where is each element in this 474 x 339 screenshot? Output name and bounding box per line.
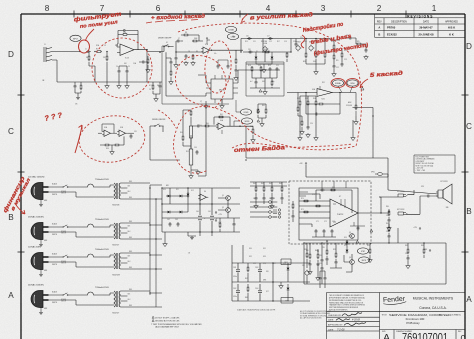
svg-text:D20: D20 [344,237,347,239]
mid band ground [234,76,239,81]
svg-text:C91: C91 [319,263,322,265]
svg-text:0.25W INPUT: 0.25W INPUT [416,161,425,163]
input labels [42,33,130,83]
power amp dashed enclosure [289,181,371,244]
u3 left resistor R32 [297,106,299,112]
power resistor R51 [189,135,193,170]
plug wires 3 [51,257,112,267]
red circle around C1 [79,40,90,53]
svg-text:R32: R32 [297,98,300,100]
rect extra diodes [162,204,188,213]
svg-text:B: B [378,32,380,36]
svg-text:BR1: BR1 [166,185,169,187]
svg-text:TITLE:: TITLE: [382,315,388,317]
svg-text:SWITCH: SWITCH [61,263,66,265]
title block frame [327,293,466,339]
svg-text:WRITTEN PERMISSION FROM FENDER: WRITTEN PERMISSION FROM FENDER [329,307,359,309]
stage1 out wire [147,51,164,53]
svg-text:RED: RED [129,197,132,199]
mute transistor Q3 [348,234,354,239]
SPKR connector pin [371,172,388,178]
jack wires [388,190,438,214]
mute resistor 1 [306,252,308,258]
svg-text:DO NOT STUFF = CSA CHK: DO NOT STUFF = CSA CHK [155,316,180,319]
resistor R40 [204,125,210,127]
svg-text:C90: C90 [319,255,322,257]
secondary bus wires [150,185,162,307]
TONE pot [263,41,269,52]
svg-text:C81: C81 [386,231,389,233]
svg-text:T400mA L250V: T400mA L250V [95,248,109,251]
ground rowC2 [189,174,194,179]
svg-text:BLU: BLU [128,261,131,263]
mute chain c3 [407,256,410,261]
svg-text:D30: D30 [249,248,252,250]
svg-text:RED: RED [129,267,132,269]
svg-text:R8: R8 [185,32,187,34]
node u4 out [239,126,240,127]
mute ground r6 [368,258,373,263]
u4 feedback [214,117,230,126]
svg-text:C99: C99 [322,247,325,249]
drive mid node 1 [240,51,241,52]
svg-text:3: 3 [321,4,326,13]
svg-text:DESCRIPTION: DESCRIPTION [391,22,407,24]
tone resistor Ra [251,66,253,72]
svg-text:C70: C70 [312,194,315,196]
mute chain r3 [407,248,409,254]
svg-text:SWITCH: SWITCH [61,301,66,303]
svg-text:APPROVED: APPROVED [445,21,458,24]
TREBLE pot [295,42,301,52]
volume out wire [356,108,373,159]
svg-text:C11: C11 [253,41,256,43]
output node [380,212,381,213]
svg-text:D32: D32 [249,256,252,258]
red dashed stub switch [158,110,176,128]
tone section box [246,62,284,96]
pa extra pins [299,192,365,231]
chain resistor R49 [190,110,192,116]
feedback resistor R4 [122,34,128,36]
input node 1 [79,51,80,52]
drive channel enclosure [162,46,229,104]
op-amp U5A [102,130,112,136]
op-amp U1B [201,47,211,53]
svg-text:R E V I S I O N S: R E V I S I O N S [407,15,433,19]
transformer T1 [112,183,133,199]
svg-text:GRN: GRN [44,270,47,272]
red arrow to input stage [86,29,95,41]
speaker coupling cap [426,195,431,198]
supply mid extra [219,218,235,232]
svg-text:R61: R61 [261,183,264,185]
tone box parts [250,78,280,88]
full power test note box [414,155,455,173]
secondary wires 1 [133,183,156,199]
tb nodes [305,38,306,39]
stack grounds [298,136,303,141]
misc nodes [159,52,160,53]
stack wires [300,96,316,136]
svg-text:4-30-08: 4-30-08 [352,318,361,321]
lower bus parts wires [75,82,81,96]
svg-text:22K: 22K [103,57,106,59]
pa feedback cap [320,189,325,192]
svg-text:2: 2 [377,4,382,13]
clip diode wires [256,52,272,68]
u3 feedback resistor R31 [318,103,324,105]
STBY oval stamp [357,248,368,254]
svg-text:C65: C65 [269,198,272,200]
svg-text:TL072: TL072 [125,58,129,60]
svg-text:R92: R92 [367,245,370,247]
svg-text:GRN: GRN [44,308,47,310]
chain resistor R50 [182,135,184,141]
mute wires r6 [369,243,371,258]
input node 3 [106,51,107,52]
svg-text:POWER: POWER [61,299,66,301]
tone wires [246,64,284,90]
drive switch S2 [154,124,160,127]
supply cap C62 [169,222,172,227]
MORE DRIVE oval stamp [241,118,252,124]
svg-text:C8: C8 [188,51,190,53]
drive mid run [243,51,291,53]
resistor R42 [252,128,254,134]
svg-text:7-2-08: 7-2-08 [337,328,345,332]
svg-text:INPUT: INPUT [73,38,78,40]
wire down from u4 [245,126,247,158]
footswitch wires [234,100,240,126]
supply rail wires [162,188,240,236]
u5 resistor 2 [114,144,120,146]
low cap bank 2 [258,263,262,301]
svg-text:C3: C3 [104,45,106,47]
warning triangle u3 [361,87,364,90]
svg-text:FULL POWER TEST:: FULL POWER TEST: [416,156,430,158]
opamp labels 2 [96,44,136,65]
drive series cap [248,51,253,54]
mute wires c5 [330,243,342,268]
plug wires 1 [51,187,112,197]
svg-text:0: 0 [461,334,466,339]
pa input wires [299,194,381,227]
chain wires rowC [183,110,198,170]
stage2 top wires [176,35,203,52]
svg-text:29-MAY-07: 29-MAY-07 [419,26,433,30]
mute wires [304,240,446,284]
pa top pins [322,181,346,188]
red left margin note [2,174,33,214]
tone ground [263,90,268,95]
power switch S2 [62,225,68,228]
u3 out node [339,92,340,93]
red flourish 2 [301,35,305,48]
checked date row [328,318,361,321]
ground rowC [196,170,201,175]
stage1 extra caps [139,56,150,73]
power switch label 2 [61,231,66,235]
svg-text:C18: C18 [248,49,251,51]
right top parts [344,37,368,60]
svg-text:RED: RED [129,289,132,291]
svg-text:C97: C97 [273,263,276,265]
mute cap 2 [321,266,324,271]
svg-text:MUTE: MUTE [362,260,367,262]
node rect [187,195,188,196]
ground stage2 a [184,61,189,66]
svg-text:POWER: POWER [61,261,66,263]
u5 ground [110,150,115,155]
svg-text:1K5: 1K5 [336,60,339,62]
supply transistor Q1 [224,196,230,201]
low right chain 3 [326,240,329,265]
svg-text:D10: D10 [163,189,166,191]
speaker wires [436,192,438,196]
tone resistor Rb [260,66,262,72]
svg-text:U7: U7 [339,196,341,198]
svg-text:DRIVE ON/OFF: DRIVE ON/OFF [158,38,172,40]
drive switch S1 [163,44,169,47]
svg-text:T65070T: T65070T [112,245,120,247]
svg-text:J1: J1 [44,44,46,46]
svg-text:REV: REV [377,22,382,24]
svg-text:T160mA L250V: T160mA L250V [95,218,109,221]
svg-text:C7: C7 [178,38,180,40]
stack resistor B [307,100,309,106]
svg-text:769107001: 769107001 [402,331,448,339]
r5 wires [89,52,107,85]
pa feedback [316,190,352,213]
treble bass wires [291,39,330,53]
svg-text:C102: C102 [233,288,237,290]
svg-text:DATE:: DATE: [328,328,334,331]
svg-text:A: A [378,26,380,30]
svg-text:INT SPKR: INT SPKR [440,181,448,183]
svg-text:C40: C40 [199,125,202,127]
supply ground 2 [163,242,168,247]
svg-text:JACK DIAGRAM REF ONLY: JACK DIAGRAM REF ONLY [155,326,180,329]
supply reg U6 [198,194,208,200]
svg-text:R40: R40 [206,123,209,125]
svg-text:POWER: POWER [61,191,66,193]
svg-text:B: B [466,207,472,216]
lower bus wire [57,81,162,83]
mute pot [305,270,311,277]
svg-text:DRIVE ON/OFF: DRIVE ON/OFF [152,119,166,121]
drive top run [241,39,291,53]
svg-text:C: C [466,122,472,131]
svg-text:C24: C24 [310,123,313,125]
power switch label 4 [61,299,66,303]
transformer T3 [112,253,133,269]
node stage2 [211,50,212,51]
svg-text:DRIVE: DRIVE [350,83,354,85]
revisions table frame [375,14,465,37]
bus series resistor R2 [96,51,102,53]
svg-text:D21: D21 [344,245,347,247]
svg-text:C5: C5 [128,66,130,68]
svg-text:DATE:: DATE: [328,319,334,322]
approved date row [328,328,345,332]
svg-text:B: B [8,213,14,222]
svg-text:R34: R34 [313,98,316,100]
low right labels [306,247,325,252]
warning triangle 1 [259,89,262,92]
power switch label 1 [61,191,66,195]
ground C5 [125,84,130,89]
capacitor C10 [176,40,181,43]
op-amp U4A [216,123,226,129]
svg-text:D2: D2 [268,51,270,53]
svg-text:APPROVED BY:: APPROVED BY: [328,324,343,327]
svg-text:T500mA L250V: T500mA L250V [95,178,109,181]
small component notes [300,310,331,320]
plug wire labels 4 [44,291,57,311]
mid band cap [235,68,238,73]
plug ground G3 [39,273,43,276]
svg-text:C72: C72 [324,221,327,223]
svg-text:Q1: Q1 [222,195,224,197]
low right chain 1 [308,243,313,275]
drive vert resistor [286,52,288,58]
mute wires b [408,243,446,284]
svg-text:R20: R20 [304,41,307,43]
svg-text:VR1: VR1 [302,265,305,267]
op-amp U5B [117,130,127,136]
svg-text:C61: C61 [208,211,211,213]
output wire up [381,197,398,213]
ground input [76,96,80,99]
svg-text:T65070W: T65070W [112,275,120,277]
svg-text:470p: 470p [232,36,235,38]
pa cap 2 [323,229,326,234]
right chain ground [332,72,337,77]
svg-text:R81: R81 [386,223,389,225]
svg-text:S1: S1 [166,42,168,44]
CLEAN oval stamp [225,26,236,32]
red circle around NORMAL [331,78,345,87]
svg-text:RED: RED [129,305,132,307]
svg-text:Q3: Q3 [349,232,351,234]
pa left column parts [292,201,295,222]
svg-text:SWITCH: SWITCH [61,233,66,235]
ext speaker jack 1 [397,191,407,197]
svg-text:C31: C31 [134,131,137,133]
stack cap [307,125,310,130]
plug ground G1 [39,203,43,206]
svg-text:H B K: H B K [448,26,455,30]
low resistor col 1 [247,263,249,301]
zobel ground [387,226,392,231]
fuse F1 [68,184,112,187]
red dashed loop drive region [174,23,362,173]
left margin zone tick marks [18,95,25,252]
plug wire labels 2 [44,223,57,243]
svg-text:R17: R17 [277,41,280,43]
svg-text:C63: C63 [175,219,178,221]
svg-text:CLEAN: CLEAN [228,29,234,32]
power amp IC U7 TDA7293 [330,196,358,227]
r30 wires [341,48,343,62]
svg-text:DRIVE: DRIVE [244,112,249,114]
u3 left ground [300,130,305,135]
svg-text:C82: C82 [405,253,408,255]
plug ground G2 [39,243,43,246]
pa cap 3 [331,229,334,234]
DRIVE oval stamp 2 [347,80,358,93]
secondary wires 4 [133,291,156,307]
svg-text:WHITE: WHITE [52,302,57,304]
switch wire [147,47,174,52]
svg-text:4700u: 4700u [233,276,237,278]
svg-text:C19: C19 [300,37,303,39]
secondary wires 2 [133,223,156,239]
svg-text:+ TEST + THD: + TEST + THD [416,170,425,172]
svg-text:6: 6 [156,4,161,13]
drive series resistor [264,51,270,53]
svg-text:-43V: -43V [424,249,427,251]
low mid column [266,262,274,301]
svg-text:R50: R50 [180,132,183,134]
wire rowC2 [190,170,192,174]
svg-text:A: A [466,295,472,304]
mute diode D20 [346,240,349,246]
svg-text:R25: R25 [357,41,360,43]
power switch S3 [62,255,68,258]
svg-text:C22: C22 [336,67,339,69]
svg-text:R36: R36 [106,148,109,150]
connector J4 [273,209,281,218]
svg-text:T65070B: T65070B [112,205,120,207]
svg-text:C23: C23 [344,59,347,61]
resistor R7 [80,84,82,90]
s2 wires [150,126,180,160]
transformer T2 [112,223,133,239]
red dashed loop input stage [89,35,155,101]
svg-text:PCB Assy: PCB Assy [406,321,420,325]
svg-text:R41: R41 [220,114,223,116]
svg-text:10K: 10K [262,81,265,83]
svg-text:GRN: GRN [44,200,47,202]
wire sup g2 [164,232,166,242]
proprietary notice text [329,294,365,311]
AC plug P3 [31,253,51,274]
ground R6 [105,84,110,89]
svg-text:20-JUNE-08: 20-JUNE-08 [419,32,434,36]
svg-text:7 TEST POINTS MEASURED WITH N: 7 TEST POINTS MEASURED WITH NO SIG. VOLU… [151,323,202,326]
mute resistor r6 [369,248,371,254]
switch IC U2 M5201 [206,75,238,103]
zobel resistor [388,210,390,216]
power switch S4 [62,293,68,296]
q wires [218,198,228,218]
AC plug P4 [31,291,51,312]
secondary labels 1 [128,181,132,199]
svg-text:330K: 330K [194,38,197,40]
fifth stage bus [287,92,317,94]
plug wire labels 3 [44,253,57,273]
resistor R12 [192,54,194,60]
svg-text:R83: R83 [421,245,424,247]
svg-text:SPKn: SPKn [371,172,375,174]
red dashed tail bayda [232,143,352,148]
svg-text:/7): /7) [75,104,78,106]
svg-text:220K: 220K [123,33,126,35]
svg-text:DATE: DATE [423,21,429,24]
u5 labels [104,126,137,150]
